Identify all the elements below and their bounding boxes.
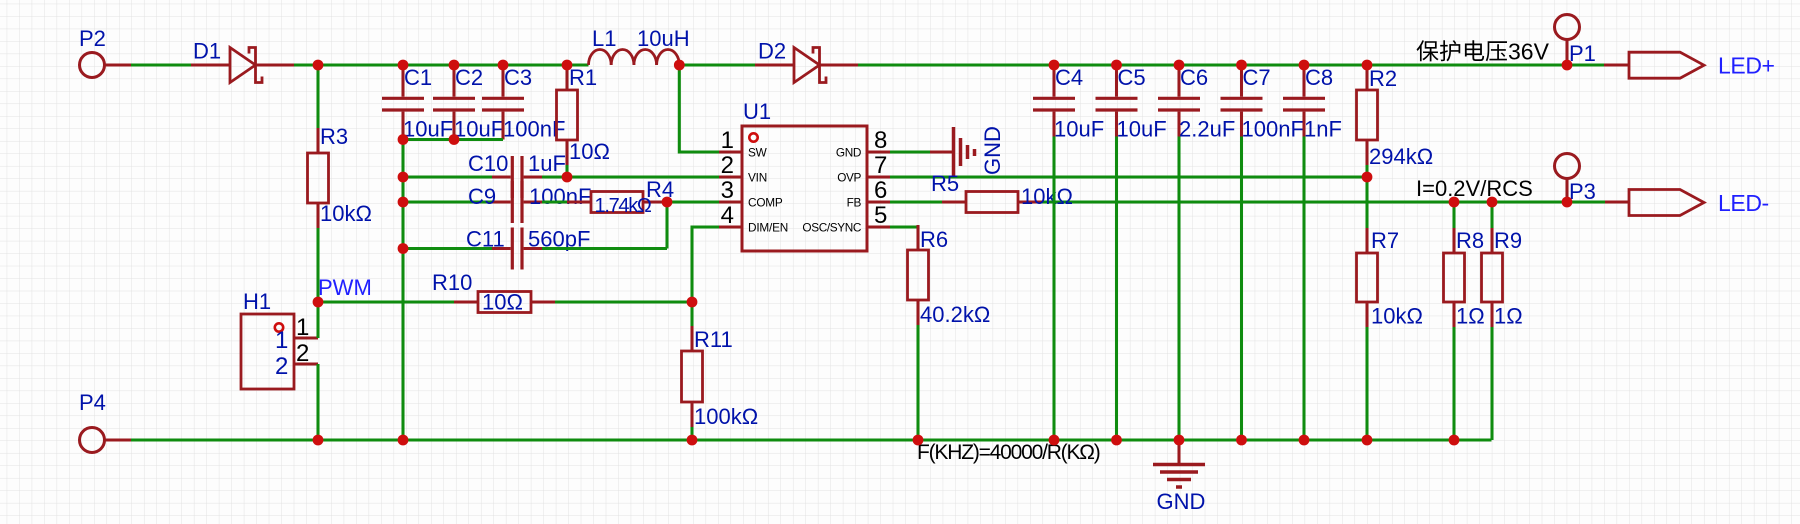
junction top rail x=1567 bbox=[1562, 60, 1573, 71]
U1 pin 2 stub bbox=[719, 175, 742, 178]
svg-text:10uH: 10uH bbox=[637, 26, 690, 51]
label R5 bbox=[931, 171, 959, 196]
net flag LED- bbox=[1629, 190, 1704, 216]
svg-text:GND: GND bbox=[980, 126, 1005, 175]
junction ground rail x=1116.5 bbox=[1111, 435, 1122, 446]
capacitor C2 bbox=[433, 65, 475, 140]
wire R2 bottom to OVP net bbox=[1365, 165, 1368, 177]
wire C6 to ground rail bbox=[1177, 137, 1180, 441]
svg-text:1.74kΩ: 1.74kΩ bbox=[595, 195, 652, 217]
value 10kΩ of R5 bbox=[1021, 184, 1073, 209]
resistor R1 bbox=[557, 65, 578, 165]
H1 pin number 2 bbox=[296, 340, 309, 367]
junction at (403,202) bbox=[398, 197, 409, 208]
svg-text:R7: R7 bbox=[1371, 228, 1399, 253]
wire R7 bottom to ground rail bbox=[1365, 327, 1368, 440]
net label LED+ bbox=[1718, 53, 1775, 79]
wire R8 top to LED- net bbox=[1452, 202, 1455, 228]
junction top rail x=454 bbox=[449, 60, 460, 71]
label D2 bbox=[758, 39, 786, 64]
svg-text:P4: P4 bbox=[79, 390, 106, 415]
U1 pin number 5 bbox=[874, 202, 887, 229]
svg-text:1: 1 bbox=[721, 127, 734, 154]
junction ground rail x=1054 bbox=[1049, 435, 1060, 446]
U1 pin number 3 bbox=[721, 177, 734, 204]
label C4 bbox=[1055, 65, 1083, 90]
junction ground rail x=918 bbox=[913, 435, 924, 446]
svg-text:DIM/EN: DIM/EN bbox=[748, 221, 788, 235]
svg-text:R1: R1 bbox=[569, 65, 597, 90]
wire C7 to ground rail bbox=[1240, 137, 1243, 441]
junction at (454,139.5) bbox=[449, 134, 460, 145]
junction ground rail x=1304 bbox=[1299, 435, 1310, 446]
wire C4 to ground rail bbox=[1052, 137, 1055, 441]
junction top rail x=1054 bbox=[1049, 60, 1060, 71]
label R9 bbox=[1494, 228, 1522, 253]
wire L1 to D2 anode bbox=[679, 63, 755, 66]
junction at (1367,177) bbox=[1362, 172, 1373, 183]
svg-text:I=0.2V/RCS: I=0.2V/RCS bbox=[1416, 176, 1533, 201]
net label GND vertical bbox=[980, 126, 1005, 175]
resistor R2 bbox=[1357, 65, 1378, 165]
U1 pin name SW bbox=[748, 146, 768, 160]
junction at (318,302) bbox=[313, 297, 324, 308]
label H1 bbox=[243, 289, 271, 314]
junction at (403,177) bbox=[398, 172, 409, 183]
capacitor C3 bbox=[482, 65, 524, 140]
resistor R3 bbox=[308, 128, 329, 228]
capacitor C8 bbox=[1283, 65, 1325, 137]
wire ground rail bbox=[131, 438, 1492, 441]
wire VIN net: bus to C10 bbox=[403, 175, 492, 178]
junction top rail x=403 bbox=[398, 60, 409, 71]
label C2 bbox=[455, 65, 483, 90]
wire OVP net U1 pin7 to R2 bottom bbox=[890, 175, 1367, 178]
wire R1 bottom to VIN net bbox=[565, 165, 568, 177]
label P3 bbox=[1569, 179, 1596, 204]
wire R11 to ground rail bbox=[690, 427, 693, 440]
junction ground rail x=692 bbox=[687, 435, 698, 446]
svg-text:U1: U1 bbox=[743, 99, 771, 124]
resistor R10 bbox=[454, 292, 555, 313]
label R7 bbox=[1371, 228, 1399, 253]
wire DIM/EN node to U1 pin4 bbox=[692, 227, 719, 302]
svg-text:C2: C2 bbox=[455, 65, 483, 90]
wire FB net U1 pin6 to R5 bbox=[890, 200, 942, 203]
wire H1 pin2 down to ground rail bbox=[316, 364, 319, 440]
svg-text:2: 2 bbox=[721, 152, 734, 179]
resistor R5 bbox=[942, 192, 1042, 213]
U1 pin name FB bbox=[847, 196, 862, 210]
svg-text:GND: GND bbox=[836, 146, 861, 160]
svg-text:FB: FB bbox=[847, 196, 862, 210]
svg-text:10Ω: 10Ω bbox=[482, 290, 523, 315]
label C6 bbox=[1180, 65, 1208, 90]
wire R8 bottom to ground rail bbox=[1452, 327, 1455, 440]
wire left GND bus bbox=[401, 140, 404, 441]
connector pin P4 bbox=[80, 428, 105, 453]
diode D1 (schottky) bbox=[191, 48, 294, 83]
label R3 bbox=[320, 124, 348, 149]
wire C11 net: bus to C11 bbox=[403, 247, 492, 250]
svg-text:OSC/SYNC: OSC/SYNC bbox=[802, 221, 861, 235]
svg-text:1uF: 1uF bbox=[528, 151, 566, 176]
svg-text:C4: C4 bbox=[1055, 65, 1083, 90]
resistor R7 bbox=[1357, 228, 1378, 327]
junction top rail x=1179 bbox=[1174, 60, 1185, 71]
wire D2 cathode to LED+ rail bbox=[858, 63, 1604, 66]
svg-text:VIN: VIN bbox=[748, 171, 767, 185]
junction top rail x=567 bbox=[562, 60, 573, 71]
label P2 bbox=[79, 26, 106, 51]
junction top rail x=1116.5 bbox=[1111, 60, 1122, 71]
wire U1 pin8 to ground symbol bbox=[890, 150, 930, 153]
wire OVP node down to R7 bbox=[1365, 177, 1368, 228]
connector pin P3 bbox=[1555, 154, 1580, 179]
svg-text:C7: C7 bbox=[1243, 65, 1271, 90]
label C3 bbox=[504, 65, 532, 90]
connector pin P1 bbox=[1555, 15, 1580, 40]
svg-text:1Ω: 1Ω bbox=[1456, 304, 1485, 329]
label R8 bbox=[1456, 228, 1484, 253]
wire P2 to D1 anode bbox=[131, 63, 191, 66]
net label LED- bbox=[1718, 190, 1769, 216]
svg-text:GND: GND bbox=[1157, 489, 1206, 514]
U1 pin 4 stub bbox=[719, 225, 742, 228]
svg-text:10uF: 10uF bbox=[403, 117, 453, 142]
svg-text:H1: H1 bbox=[243, 289, 271, 314]
svg-text:C6: C6 bbox=[1180, 65, 1208, 90]
free text I=0.2V/RCS bbox=[1416, 176, 1533, 201]
svg-text:C8: C8 bbox=[1305, 65, 1333, 90]
svg-text:36V: 36V bbox=[1508, 39, 1550, 65]
wire R6 to ground rail bbox=[916, 325, 919, 440]
label C9 bbox=[468, 184, 496, 209]
value 294kΩ of R2 bbox=[1369, 144, 1433, 169]
value 10uH of L1 bbox=[637, 26, 690, 51]
svg-text:P2: P2 bbox=[79, 26, 106, 51]
resistor R9 bbox=[1482, 228, 1503, 327]
wire C11 to riser bbox=[542, 247, 667, 250]
pin lead of LED- flag bbox=[1605, 200, 1629, 203]
label C10 bbox=[468, 151, 508, 176]
junction ground rail x=1367 bbox=[1362, 435, 1373, 446]
wire top rail node A to L1 bbox=[318, 63, 589, 66]
capacitor C5 bbox=[1096, 65, 1138, 137]
capacitor C6 bbox=[1158, 65, 1200, 137]
svg-text:100nF: 100nF bbox=[1242, 117, 1304, 142]
resistor R11 bbox=[682, 326, 703, 427]
capacitor C11 bbox=[492, 228, 542, 270]
wire D1 cathode to node A bbox=[294, 63, 318, 66]
svg-text:C10: C10 bbox=[468, 151, 508, 176]
H1 pin name 2 bbox=[275, 353, 288, 380]
wire cap bottoms bus bbox=[403, 138, 503, 141]
pin lead of P4 bbox=[105, 438, 132, 441]
value 10kΩ of R3 bbox=[320, 201, 372, 226]
value 40.2kΩ of R6 bbox=[920, 302, 990, 327]
wire SW net L1 node to U1 pin1 bbox=[679, 65, 719, 152]
svg-text:D1: D1 bbox=[193, 39, 221, 64]
svg-text:R10: R10 bbox=[432, 270, 472, 295]
svg-text:F(KHZ)=40000/R(KΩ): F(KHZ)=40000/R(KΩ) bbox=[917, 441, 1100, 464]
pin-1 marker of U1 bbox=[749, 133, 757, 141]
svg-text:1: 1 bbox=[275, 327, 288, 354]
free text F(KHZ)=40000/R(KΩ) bbox=[917, 441, 1100, 464]
H1 pin name 1 bbox=[275, 327, 288, 354]
junction at (1492,202) bbox=[1487, 197, 1498, 208]
svg-text:2: 2 bbox=[296, 340, 309, 367]
svg-text:10uF: 10uF bbox=[1054, 117, 1104, 142]
U1 pin 5 stub bbox=[867, 225, 890, 228]
junction top rail x=503 bbox=[498, 60, 509, 71]
label R11 bbox=[694, 327, 733, 352]
label C8 bbox=[1305, 65, 1333, 90]
U1 pin name OSC/SYNC bbox=[802, 221, 861, 235]
junction top rail x=679.3 bbox=[674, 60, 685, 71]
wire COMP net: bus to C9 bbox=[403, 200, 492, 203]
svg-text:10uF: 10uF bbox=[454, 117, 504, 142]
wire PWM node to R10 bbox=[318, 300, 454, 303]
wire C5 to ground rail bbox=[1115, 137, 1118, 441]
svg-text:10uF: 10uF bbox=[1117, 117, 1167, 142]
junction ground rail x=1179 bbox=[1174, 435, 1185, 446]
svg-text:1: 1 bbox=[296, 314, 309, 341]
pin lead of P1 flag bbox=[1604, 63, 1629, 66]
junction at (567,177) bbox=[562, 172, 573, 183]
svg-text:R3: R3 bbox=[320, 124, 348, 149]
svg-text:C3: C3 bbox=[504, 65, 532, 90]
value 10uF of C5 bbox=[1117, 117, 1167, 142]
svg-text:10kΩ: 10kΩ bbox=[1371, 304, 1423, 329]
H1 pin number 1 bbox=[296, 314, 309, 341]
junction top rail x=1367 bbox=[1362, 60, 1373, 71]
label R6 bbox=[920, 227, 948, 252]
svg-text:L1: L1 bbox=[592, 26, 616, 51]
capacitor C1 bbox=[382, 65, 424, 140]
free text 保护电压36V bbox=[1417, 39, 1550, 65]
wire DIM/EN node to R11 bbox=[690, 302, 693, 326]
resistor R4 bbox=[567, 192, 667, 213]
U1 pin name VIN bbox=[748, 171, 767, 185]
svg-text:6: 6 bbox=[874, 177, 887, 204]
svg-text:40.2kΩ: 40.2kΩ bbox=[920, 302, 990, 327]
U1 pin 3 stub bbox=[719, 200, 742, 203]
junction at (403,139.5) bbox=[398, 134, 409, 145]
label R10 bbox=[432, 270, 472, 295]
svg-text:10kΩ: 10kΩ bbox=[320, 201, 372, 226]
svg-text:R11: R11 bbox=[694, 327, 733, 352]
wire VIN net: C10 to U1 pin2 bbox=[542, 175, 719, 178]
U1 pin 8 stub bbox=[867, 150, 890, 153]
value 1uF of C10 bbox=[528, 151, 566, 176]
svg-text:10Ω: 10Ω bbox=[569, 139, 610, 164]
capacitor C4 bbox=[1033, 65, 1075, 137]
pin lead of P2 bbox=[105, 63, 132, 66]
value 2.2uF of C6 bbox=[1179, 117, 1235, 142]
capacitor C7 bbox=[1221, 65, 1263, 137]
value 10uF of C1 bbox=[403, 117, 453, 142]
junction at (1567,202) bbox=[1562, 197, 1573, 208]
value 10kΩ of R7 bbox=[1371, 304, 1423, 329]
value 100nF of C7 bbox=[1242, 117, 1304, 142]
U1 pin number 7 bbox=[874, 152, 887, 179]
svg-text:LED+: LED+ bbox=[1718, 53, 1775, 79]
svg-text:C5: C5 bbox=[1118, 65, 1146, 90]
junction at (1454,202) bbox=[1449, 197, 1460, 208]
value 100kΩ of R11 bbox=[694, 404, 758, 429]
connector H1 body bbox=[241, 314, 294, 389]
label U1 bbox=[743, 99, 771, 124]
wire C9 to R4 bbox=[542, 200, 567, 203]
svg-text:C9: C9 bbox=[468, 184, 496, 209]
resistor R8 bbox=[1444, 228, 1465, 327]
svg-text:R2: R2 bbox=[1369, 66, 1397, 91]
svg-text:1nF: 1nF bbox=[1304, 117, 1342, 142]
svg-text:4: 4 bbox=[721, 202, 734, 229]
net label PWM bbox=[318, 275, 372, 300]
svg-text:8: 8 bbox=[874, 127, 887, 154]
value 10Ω of R10 bbox=[482, 290, 523, 315]
U1 pin name COMP bbox=[748, 196, 783, 210]
svg-text:C1: C1 bbox=[404, 65, 432, 90]
net label GND bottom bbox=[1157, 489, 1206, 514]
svg-text:1Ω: 1Ω bbox=[1494, 304, 1523, 329]
wire FB / LED- net R5 to flag bbox=[1042, 200, 1605, 203]
svg-text:10kΩ: 10kΩ bbox=[1021, 184, 1073, 209]
wire R9 top to LED- net bbox=[1490, 202, 1493, 228]
wire C11 riser to COMP node bbox=[665, 202, 668, 249]
junction ground rail x=403 bbox=[398, 435, 409, 446]
connector pin P2 bbox=[80, 53, 105, 78]
svg-text:P1: P1 bbox=[1569, 41, 1596, 66]
svg-text:SW: SW bbox=[748, 146, 768, 160]
wire node A down to R3 bbox=[316, 65, 319, 128]
U1 pin 6 stub bbox=[867, 200, 890, 203]
svg-text:LED-: LED- bbox=[1718, 190, 1769, 216]
U1 pin 1 stub bbox=[719, 150, 742, 153]
U1 pin name DIM/EN bbox=[748, 221, 788, 235]
pin lead of P3 bbox=[1565, 179, 1568, 203]
U1 pin number 8 bbox=[874, 127, 887, 154]
svg-text:R5: R5 bbox=[931, 171, 959, 196]
value 1.74kΩ of R4 bbox=[595, 195, 652, 217]
svg-text:5: 5 bbox=[874, 202, 887, 229]
label P1 bbox=[1569, 41, 1596, 66]
label R1 bbox=[569, 65, 597, 90]
U1 pin name OVP bbox=[837, 171, 861, 185]
svg-text:R8: R8 bbox=[1456, 228, 1484, 253]
H1 pin 2 stub bbox=[294, 362, 318, 365]
value 10Ω of R1 bbox=[569, 139, 610, 164]
resistor R6 bbox=[908, 225, 929, 325]
U1 pin number 1 bbox=[721, 127, 734, 154]
label D1 bbox=[193, 39, 221, 64]
junction at (667,202) bbox=[662, 197, 673, 208]
junction top rail x=1241.5 bbox=[1236, 60, 1247, 71]
label C7 bbox=[1243, 65, 1271, 90]
label P4 bbox=[79, 390, 106, 415]
capacitor C10 bbox=[492, 156, 542, 198]
U1 pin 7 stub bbox=[867, 175, 890, 178]
value 1nF of C8 bbox=[1304, 117, 1342, 142]
svg-text:COMP: COMP bbox=[748, 196, 783, 210]
junction at (692,302) bbox=[687, 297, 698, 308]
svg-text:R9: R9 bbox=[1494, 228, 1522, 253]
wire PWM node down to H1 pin1 bbox=[316, 302, 319, 338]
wire R9 bottom to ground rail bbox=[1490, 327, 1493, 440]
value 560pF of C11 bbox=[528, 227, 590, 252]
svg-text:294kΩ: 294kΩ bbox=[1369, 144, 1433, 169]
wire R4 to U1 pin3 bbox=[667, 200, 719, 203]
H1 pin 1 stub bbox=[294, 336, 318, 339]
svg-text:OVP: OVP bbox=[837, 171, 861, 185]
value 100nF of C9 bbox=[529, 184, 591, 209]
value 1Ω of R9 bbox=[1494, 304, 1523, 329]
junction top rail x=318 bbox=[313, 60, 324, 71]
wire R10 to DIM/EN node bbox=[555, 300, 692, 303]
inductor L1 bbox=[589, 49, 680, 65]
value 10uF of C4 bbox=[1054, 117, 1104, 142]
capacitor C9 bbox=[492, 181, 542, 223]
wire OSC net U1 pin5 to R6 bbox=[890, 226, 918, 227]
svg-text:R6: R6 bbox=[920, 227, 948, 252]
junction top rail x=1304 bbox=[1299, 60, 1310, 71]
svg-text:P3: P3 bbox=[1569, 179, 1596, 204]
wire C8 to ground rail bbox=[1302, 137, 1305, 441]
U1 pin number 6 bbox=[874, 177, 887, 204]
U1 pin number 2 bbox=[721, 152, 734, 179]
pin-1 marker of H1 bbox=[275, 323, 283, 331]
ground symbol (U1 pin 8) bbox=[930, 127, 975, 176]
ground symbol (bottom rail) bbox=[1153, 440, 1205, 487]
diode D2 (schottky) bbox=[755, 48, 858, 83]
junction ground rail x=1241.5 bbox=[1236, 435, 1247, 446]
net flag LED+ bbox=[1629, 52, 1704, 78]
label R4 bbox=[646, 177, 674, 202]
label C11 bbox=[466, 227, 505, 252]
U1 pin number 4 bbox=[721, 202, 734, 229]
junction at (403,248.5) bbox=[398, 243, 409, 254]
junction ground rail x=318 bbox=[313, 435, 324, 446]
U1 pin name GND bbox=[836, 146, 861, 160]
label R2 bbox=[1369, 66, 1397, 91]
wire R3 to PWM node bbox=[316, 228, 319, 302]
label C5 bbox=[1118, 65, 1146, 90]
value 100nF of C3 bbox=[503, 117, 565, 142]
svg-text:7: 7 bbox=[874, 152, 887, 179]
value 10uF of C2 bbox=[454, 117, 504, 142]
svg-text:100kΩ: 100kΩ bbox=[694, 404, 758, 429]
svg-text:3: 3 bbox=[721, 177, 734, 204]
svg-text:C11: C11 bbox=[466, 227, 505, 252]
junction ground rail x=1454 bbox=[1449, 435, 1460, 446]
label C1 bbox=[404, 65, 432, 90]
value 1Ω of R8 bbox=[1456, 304, 1485, 329]
svg-text:2: 2 bbox=[275, 353, 288, 380]
svg-text:PWM: PWM bbox=[318, 275, 372, 300]
pin lead of P1 bbox=[1565, 40, 1568, 66]
label L1 bbox=[592, 26, 616, 51]
svg-text:2.2uF: 2.2uF bbox=[1179, 117, 1235, 142]
svg-text:D2: D2 bbox=[758, 39, 786, 64]
op-amp U1 body bbox=[742, 126, 867, 251]
svg-text:100nF: 100nF bbox=[529, 184, 591, 209]
